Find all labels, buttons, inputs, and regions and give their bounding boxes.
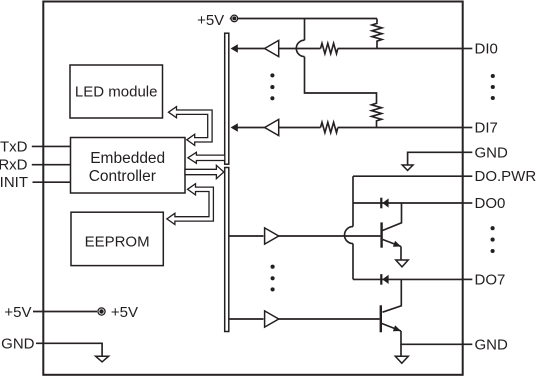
svg-text:DO7: DO7: [475, 271, 506, 288]
svg-text:DO0: DO0: [475, 195, 506, 212]
svg-text:DI7: DI7: [475, 120, 498, 137]
svg-text:EEPROM: EEPROM: [85, 233, 150, 250]
svg-text:TxD: TxD: [0, 138, 28, 155]
svg-text:DO.PWR: DO.PWR: [475, 168, 536, 185]
svg-text:GND: GND: [1, 336, 35, 353]
svg-text:+5V: +5V: [197, 12, 224, 29]
svg-text:Controller: Controller: [89, 168, 156, 185]
svg-text:GND: GND: [475, 144, 509, 161]
svg-text:+5V: +5V: [4, 304, 31, 321]
svg-text:RxD: RxD: [0, 157, 28, 174]
svg-text:+5V: +5V: [111, 304, 138, 321]
svg-text:Embedded: Embedded: [90, 150, 165, 167]
svg-text:LED module: LED module: [75, 83, 158, 100]
svg-text:GND: GND: [475, 336, 509, 353]
svg-text:DI0: DI0: [475, 41, 498, 58]
svg-text:INIT: INIT: [0, 174, 28, 191]
